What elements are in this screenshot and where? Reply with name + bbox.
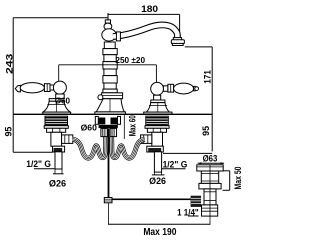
svg-text:95: 95 [4,127,14,137]
svg-text:Ø60: Ø60 [55,97,71,106]
svg-text:250 ±20: 250 ±20 [115,56,145,65]
svg-text:Max 190: Max 190 [143,227,176,238]
svg-text:1 1/4": 1 1/4" [177,207,199,217]
svg-text:1/2" G: 1/2" G [26,159,51,169]
svg-text:Max 60: Max 60 [128,115,138,136]
svg-text:Ø26: Ø26 [149,176,166,186]
svg-text:Ø63: Ø63 [203,154,218,164]
svg-text:Ø26: Ø26 [49,178,66,188]
svg-text:Ø60: Ø60 [81,122,98,132]
svg-text:243: 243 [4,54,15,74]
svg-text:95: 95 [201,126,211,136]
svg-text:180: 180 [141,4,158,14]
svg-text:Max 50: Max 50 [233,166,243,189]
svg-text:1/2" G: 1/2" G [163,159,188,169]
svg-text:171: 171 [202,70,212,84]
